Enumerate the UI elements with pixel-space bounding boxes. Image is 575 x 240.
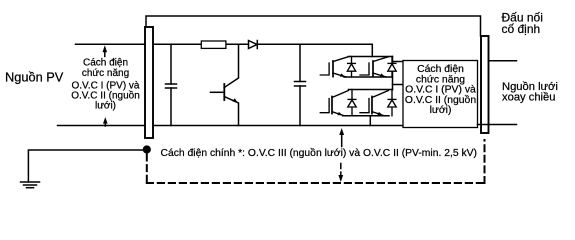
dashed chassis line vertical left xyxy=(146,155,148,184)
diode D4 xyxy=(348,90,356,116)
text label left xyxy=(71,58,140,112)
wire PV+ input xyxy=(76,43,147,45)
svg-text:cố định: cố định xyxy=(502,22,541,36)
svg-text:O.V.C II (nguồn: O.V.C II (nguồn xyxy=(405,94,476,106)
text label box right xyxy=(405,64,476,116)
resistor R1 xyxy=(201,41,226,48)
wire bridge bottom rail xyxy=(343,115,389,117)
wire bridge to DC- xyxy=(369,116,371,126)
isolation barrier right xyxy=(481,36,489,133)
ground xyxy=(21,182,40,188)
diode D5 xyxy=(388,90,396,116)
svg-text:xoay chiều: xoay chiều xyxy=(502,92,556,104)
isolation barrier left xyxy=(145,27,153,138)
arrow up to DC- rail (bottom note) xyxy=(339,128,344,147)
diode D1 xyxy=(249,41,258,49)
transistor Q4 (IGBT bottom-left) xyxy=(320,91,348,116)
wire bridge mid rail upper xyxy=(344,76,393,78)
dashed chassis line bottom xyxy=(147,182,486,184)
wire AC neutral out xyxy=(478,124,517,126)
text Nguon luoi xoay chieu xyxy=(502,81,558,104)
wire top outer rail xyxy=(146,16,481,36)
svg-text:Cách điện: Cách điện xyxy=(83,58,128,69)
wire ground connection xyxy=(28,150,146,182)
diode D2 xyxy=(347,57,355,78)
transistor Q3 (IGBT top-right) xyxy=(360,57,389,78)
dashed chassis line vertical right xyxy=(484,140,486,183)
capacitor C2 (DC link) xyxy=(295,44,306,125)
svg-text:lưới): lưới) xyxy=(430,105,452,116)
arrow down to chassis line (bottom note) xyxy=(338,164,343,183)
wire DC+ rail xyxy=(154,44,372,56)
arrow up to bottom rail (left label) xyxy=(103,117,108,126)
wire stub to box upper xyxy=(393,61,404,63)
wire stub to box lower xyxy=(393,84,408,86)
svg-text:chức năng: chức năng xyxy=(82,68,129,79)
label box right xyxy=(403,61,478,128)
transistor Q1 xyxy=(211,44,239,125)
wire bridge mid rail lower xyxy=(349,89,393,91)
transistor Q2 (IGBT top-left) xyxy=(320,57,349,78)
wire PV- input xyxy=(58,125,147,127)
wire DC- rail xyxy=(154,125,403,127)
wire AC line out xyxy=(489,60,517,62)
arrow up to top rail (left label) xyxy=(103,45,108,56)
node PE junction dot xyxy=(143,145,151,153)
wire bridge top rail xyxy=(349,56,393,58)
svg-text:Nguồn PV: Nguồn PV xyxy=(5,70,64,85)
transistor Q5 (IGBT bottom-right) xyxy=(360,91,388,116)
svg-text:lưới): lưới) xyxy=(95,101,116,112)
text Dau noi co dinh xyxy=(502,11,543,37)
svg-text:Cách điện chính *: O.V.C III (: Cách điện chính *: O.V.C III (nguồn lưới… xyxy=(161,147,478,159)
diode D3 xyxy=(388,57,396,78)
capacitor C1 xyxy=(166,44,177,125)
wire bridge right vertical xyxy=(392,57,394,90)
